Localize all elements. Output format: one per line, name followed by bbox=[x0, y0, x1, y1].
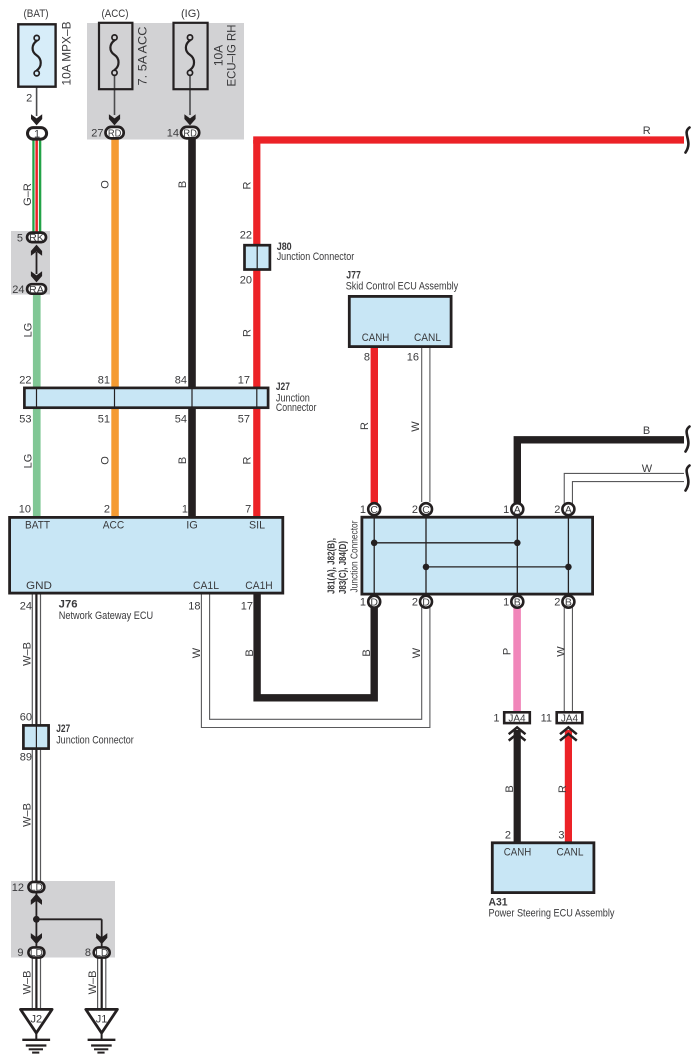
svg-text:Network Gateway ECU: Network Gateway ECU bbox=[59, 610, 154, 622]
wire R (J77 CANH to C1) bbox=[371, 348, 378, 504]
shield connector JA4 pin11 bbox=[557, 712, 583, 723]
svg-text:1: 1 bbox=[503, 504, 509, 516]
pin circle C1 bbox=[368, 503, 380, 515]
svg-text:J83(C), J84(D): J83(C), J84(D) bbox=[338, 541, 349, 594]
svg-text:GND: GND bbox=[26, 580, 52, 592]
wire P (B1 to JA4) bbox=[513, 606, 521, 713]
wire O (ACC) bbox=[111, 138, 119, 520]
connector oval LD (8) bbox=[94, 947, 110, 957]
wire B (IG) bbox=[188, 138, 196, 520]
svg-text:CA1L: CA1L bbox=[193, 580, 219, 592]
svg-text:2: 2 bbox=[26, 93, 32, 105]
svg-text:8: 8 bbox=[364, 352, 370, 364]
connector arrow (down into LD9) bbox=[31, 933, 42, 944]
svg-text:JA4: JA4 bbox=[561, 713, 579, 724]
wire W-B (GND to LD12) bbox=[32, 594, 41, 884]
svg-text:1: 1 bbox=[360, 504, 366, 516]
svg-text:LG: LG bbox=[23, 323, 35, 338]
svg-text:17: 17 bbox=[238, 375, 250, 387]
connector oval LD (9) bbox=[28, 947, 44, 957]
svg-text:(ACC): (ACC) bbox=[102, 8, 129, 20]
svg-text:22: 22 bbox=[240, 230, 252, 242]
svg-text:3: 3 bbox=[558, 830, 564, 842]
svg-text:B: B bbox=[514, 596, 521, 608]
svg-text:Skid Control ECU Assembly: Skid Control ECU Assembly bbox=[346, 280, 459, 292]
svg-text:W–B: W–B bbox=[22, 803, 34, 827]
pin circle A2 bbox=[562, 503, 574, 515]
pin circle B1 bbox=[511, 596, 523, 608]
svg-text:D: D bbox=[370, 596, 378, 608]
svg-text:27: 27 bbox=[91, 128, 103, 140]
svg-text:2: 2 bbox=[505, 830, 511, 842]
wire R (top horizontal) bbox=[253, 136, 684, 143]
wire W-B (LD9 to ground J2) bbox=[32, 958, 41, 1009]
svg-text:RK: RK bbox=[29, 232, 44, 244]
svg-text:5: 5 bbox=[17, 233, 23, 245]
ground J2 bbox=[21, 1009, 53, 1052]
svg-text:51: 51 bbox=[98, 414, 110, 426]
svg-text:1: 1 bbox=[360, 597, 366, 609]
pin circle C2 bbox=[420, 503, 432, 515]
svg-text:LD: LD bbox=[30, 947, 43, 959]
wire break symbol (R top right) bbox=[686, 128, 690, 153]
ECU A31 Power Steering bbox=[492, 843, 594, 893]
svg-text:CA1H: CA1H bbox=[245, 580, 273, 592]
pin circle A1 bbox=[511, 503, 523, 515]
svg-text:1: 1 bbox=[182, 504, 188, 516]
svg-text:7. 5A ACC: 7. 5A ACC bbox=[136, 26, 150, 85]
connector arrow (into RD 27) bbox=[109, 114, 120, 125]
svg-text:B: B bbox=[177, 181, 189, 188]
wire B (CA1H to D1) bbox=[257, 594, 374, 698]
wire break symbol (B right) bbox=[686, 427, 690, 452]
wire R (JA4 to A31 CANL) bbox=[565, 730, 572, 843]
svg-text:R: R bbox=[241, 456, 253, 464]
connector oval RA (24) bbox=[27, 284, 46, 294]
svg-text:W–B: W–B bbox=[22, 642, 34, 666]
svg-text:14: 14 bbox=[167, 128, 179, 140]
svg-text:B: B bbox=[643, 425, 650, 437]
svg-text:W–B: W–B bbox=[21, 971, 33, 995]
svg-text:8: 8 bbox=[85, 947, 91, 959]
svg-text:2: 2 bbox=[412, 504, 418, 516]
connector arrow (into RD 14) bbox=[184, 114, 195, 125]
svg-text:CANH: CANH bbox=[362, 332, 390, 344]
connector panel (LD block) bbox=[11, 881, 115, 958]
svg-text:1: 1 bbox=[34, 128, 40, 140]
svg-text:O: O bbox=[100, 180, 112, 189]
svg-text:1: 1 bbox=[503, 597, 509, 609]
svg-text:18: 18 bbox=[188, 601, 200, 613]
svg-text:RD: RD bbox=[108, 127, 122, 139]
svg-text:SIL: SIL bbox=[249, 520, 265, 532]
fuse (BAT) 10A MPX-B bbox=[18, 24, 55, 86]
fuse (ACC) 7.5A bbox=[99, 23, 132, 89]
svg-text:J1: J1 bbox=[96, 1013, 108, 1025]
svg-text:D: D bbox=[422, 596, 430, 608]
shield chevrons (JA4 pin1) bbox=[509, 727, 526, 740]
svg-text:10: 10 bbox=[19, 504, 31, 516]
svg-text:W: W bbox=[642, 463, 653, 475]
shield chevrons (JA4 pin11) bbox=[560, 727, 577, 740]
wire: fuse ACC tail bbox=[114, 76, 116, 115]
svg-text:54: 54 bbox=[175, 414, 187, 426]
svg-text:16: 16 bbox=[407, 352, 419, 364]
svg-text:ACC: ACC bbox=[103, 520, 125, 532]
wire W (J77 CANL to C2) bbox=[421, 348, 430, 502]
svg-text:BATT: BATT bbox=[25, 520, 50, 532]
connector panel (RK/RA) bbox=[11, 231, 50, 295]
svg-text:2: 2 bbox=[104, 504, 110, 516]
wire: fuse IG tail bbox=[189, 76, 191, 115]
svg-text:11: 11 bbox=[541, 713, 552, 725]
svg-text:RA: RA bbox=[29, 284, 44, 296]
connector arrow (into oval 1) bbox=[31, 114, 42, 125]
svg-text:60: 60 bbox=[20, 712, 32, 724]
wire R (SIL vertical) bbox=[253, 140, 260, 520]
wire W (A2 to right edge) bbox=[568, 478, 684, 505]
svg-text:W: W bbox=[410, 421, 422, 432]
svg-text:C: C bbox=[370, 504, 378, 516]
ECU J77 Skid Control bbox=[349, 296, 451, 346]
junction connector J80 bbox=[245, 245, 270, 269]
wire W-B (LD8 to ground J1) bbox=[97, 958, 106, 1009]
pin circle D2 bbox=[420, 596, 432, 608]
svg-text:57: 57 bbox=[238, 414, 250, 426]
junction connector J27 (row) bbox=[24, 388, 268, 408]
svg-text:(IG): (IG) bbox=[181, 8, 200, 20]
svg-text:53: 53 bbox=[19, 414, 31, 426]
svg-text:B: B bbox=[177, 457, 189, 464]
pin circle B2 bbox=[562, 596, 574, 608]
connector oval LD (12) bbox=[28, 882, 44, 892]
svg-text:RD: RD bbox=[183, 127, 197, 139]
svg-text:22: 22 bbox=[19, 375, 31, 387]
svg-text:12: 12 bbox=[12, 882, 24, 894]
svg-text:10A: 10A bbox=[212, 45, 226, 66]
svg-text:24: 24 bbox=[12, 284, 24, 296]
svg-text:C: C bbox=[422, 504, 430, 516]
svg-text:81: 81 bbox=[98, 375, 110, 387]
svg-text:10A MPX–B: 10A MPX–B bbox=[60, 22, 74, 86]
connector arrow (up into LD12) bbox=[31, 894, 42, 905]
svg-text:(BAT): (BAT) bbox=[24, 8, 49, 20]
wire W (CA1L to D2) bbox=[206, 594, 426, 723]
connector oval RD (14) bbox=[181, 127, 199, 138]
svg-text:J2: J2 bbox=[30, 1013, 42, 1025]
svg-text:17: 17 bbox=[241, 601, 253, 613]
pin circle D1 bbox=[368, 596, 380, 608]
svg-text:B: B bbox=[565, 596, 572, 608]
connector oval RD (27) bbox=[106, 127, 124, 138]
fuse (IG) 10A ECU-IG RH bbox=[174, 23, 208, 89]
connector oval RK (5) bbox=[27, 233, 46, 243]
svg-text:Junction Connector: Junction Connector bbox=[349, 520, 361, 592]
ground J1 bbox=[86, 1009, 118, 1052]
svg-text:R: R bbox=[241, 181, 253, 189]
svg-text:20: 20 bbox=[240, 275, 252, 287]
shield connector JA4 pin1 bbox=[504, 712, 530, 723]
connector pair arrows (RK/RA) bbox=[31, 245, 42, 283]
svg-text:G–R: G–R bbox=[22, 183, 34, 206]
ECU J76 Network Gateway bbox=[10, 517, 283, 593]
svg-text:CANL: CANL bbox=[557, 847, 584, 859]
svg-text:R: R bbox=[359, 422, 371, 430]
svg-text:JA4: JA4 bbox=[508, 713, 526, 724]
svg-text:2: 2 bbox=[554, 597, 560, 609]
svg-text:B: B bbox=[244, 649, 256, 656]
svg-text:CANL: CANL bbox=[414, 332, 441, 344]
svg-text:IG: IG bbox=[186, 520, 198, 532]
junction dot (LD branch) bbox=[33, 916, 40, 923]
svg-text:W–B: W–B bbox=[87, 971, 99, 995]
svg-text:B: B bbox=[361, 649, 373, 656]
svg-text:R: R bbox=[557, 785, 569, 793]
svg-text:LD: LD bbox=[30, 882, 43, 894]
svg-text:O: O bbox=[100, 456, 112, 465]
svg-text:Junction Connector: Junction Connector bbox=[56, 734, 134, 746]
svg-text:LG: LG bbox=[23, 454, 35, 469]
svg-text:W: W bbox=[411, 647, 423, 658]
wire G-R (oval 1 to RK) bbox=[32, 140, 41, 235]
LD branch wiring bbox=[36, 893, 101, 947]
svg-text:1: 1 bbox=[493, 713, 499, 725]
svg-text:W: W bbox=[556, 646, 568, 657]
svg-text:A: A bbox=[514, 504, 521, 516]
wire B (JA4 to A31 CANH) bbox=[514, 730, 521, 843]
svg-text:J27: J27 bbox=[276, 381, 290, 393]
junction block panel (ACC/IG fuse block) bbox=[87, 23, 244, 140]
junction connector J27 (lower) bbox=[23, 725, 48, 748]
wire: fuse BAT tail bbox=[36, 76, 38, 116]
svg-text:W: W bbox=[191, 647, 203, 658]
svg-text:A31: A31 bbox=[489, 897, 508, 909]
svg-text:84: 84 bbox=[175, 375, 187, 387]
svg-text:7: 7 bbox=[245, 504, 251, 516]
connector oval 1 bbox=[28, 128, 47, 140]
svg-text:B: B bbox=[504, 785, 516, 792]
wire W (B2 to JA4) bbox=[564, 606, 573, 712]
wire B (A1 to right edge) bbox=[517, 440, 684, 504]
svg-text:P: P bbox=[502, 648, 514, 655]
svg-text:Junction Connector: Junction Connector bbox=[277, 251, 355, 263]
svg-text:Power Steering ECU Assembly: Power Steering ECU Assembly bbox=[489, 908, 615, 920]
wire break symbol (W right) bbox=[686, 466, 690, 491]
svg-text:2: 2 bbox=[554, 504, 560, 516]
svg-text:CANH: CANH bbox=[504, 847, 532, 859]
svg-text:9: 9 bbox=[17, 947, 23, 959]
svg-text:ECU–IG RH: ECU–IG RH bbox=[225, 25, 239, 87]
svg-text:24: 24 bbox=[20, 601, 32, 613]
svg-text:A: A bbox=[565, 504, 572, 516]
connector arrow (down into LD8) bbox=[96, 933, 107, 944]
junction connector J81/J82/J83/J84 bbox=[362, 517, 593, 594]
svg-text:Connector: Connector bbox=[276, 402, 317, 414]
svg-text:J81(A), J82(B),: J81(A), J82(B), bbox=[327, 538, 338, 594]
svg-text:R: R bbox=[241, 329, 253, 337]
svg-text:89: 89 bbox=[20, 752, 32, 764]
wire LG (RA to J76 BATT) bbox=[33, 289, 41, 520]
svg-text:R: R bbox=[643, 125, 651, 137]
svg-text:2: 2 bbox=[412, 597, 418, 609]
svg-text:J76: J76 bbox=[59, 598, 78, 610]
svg-text:LD: LD bbox=[95, 947, 108, 959]
